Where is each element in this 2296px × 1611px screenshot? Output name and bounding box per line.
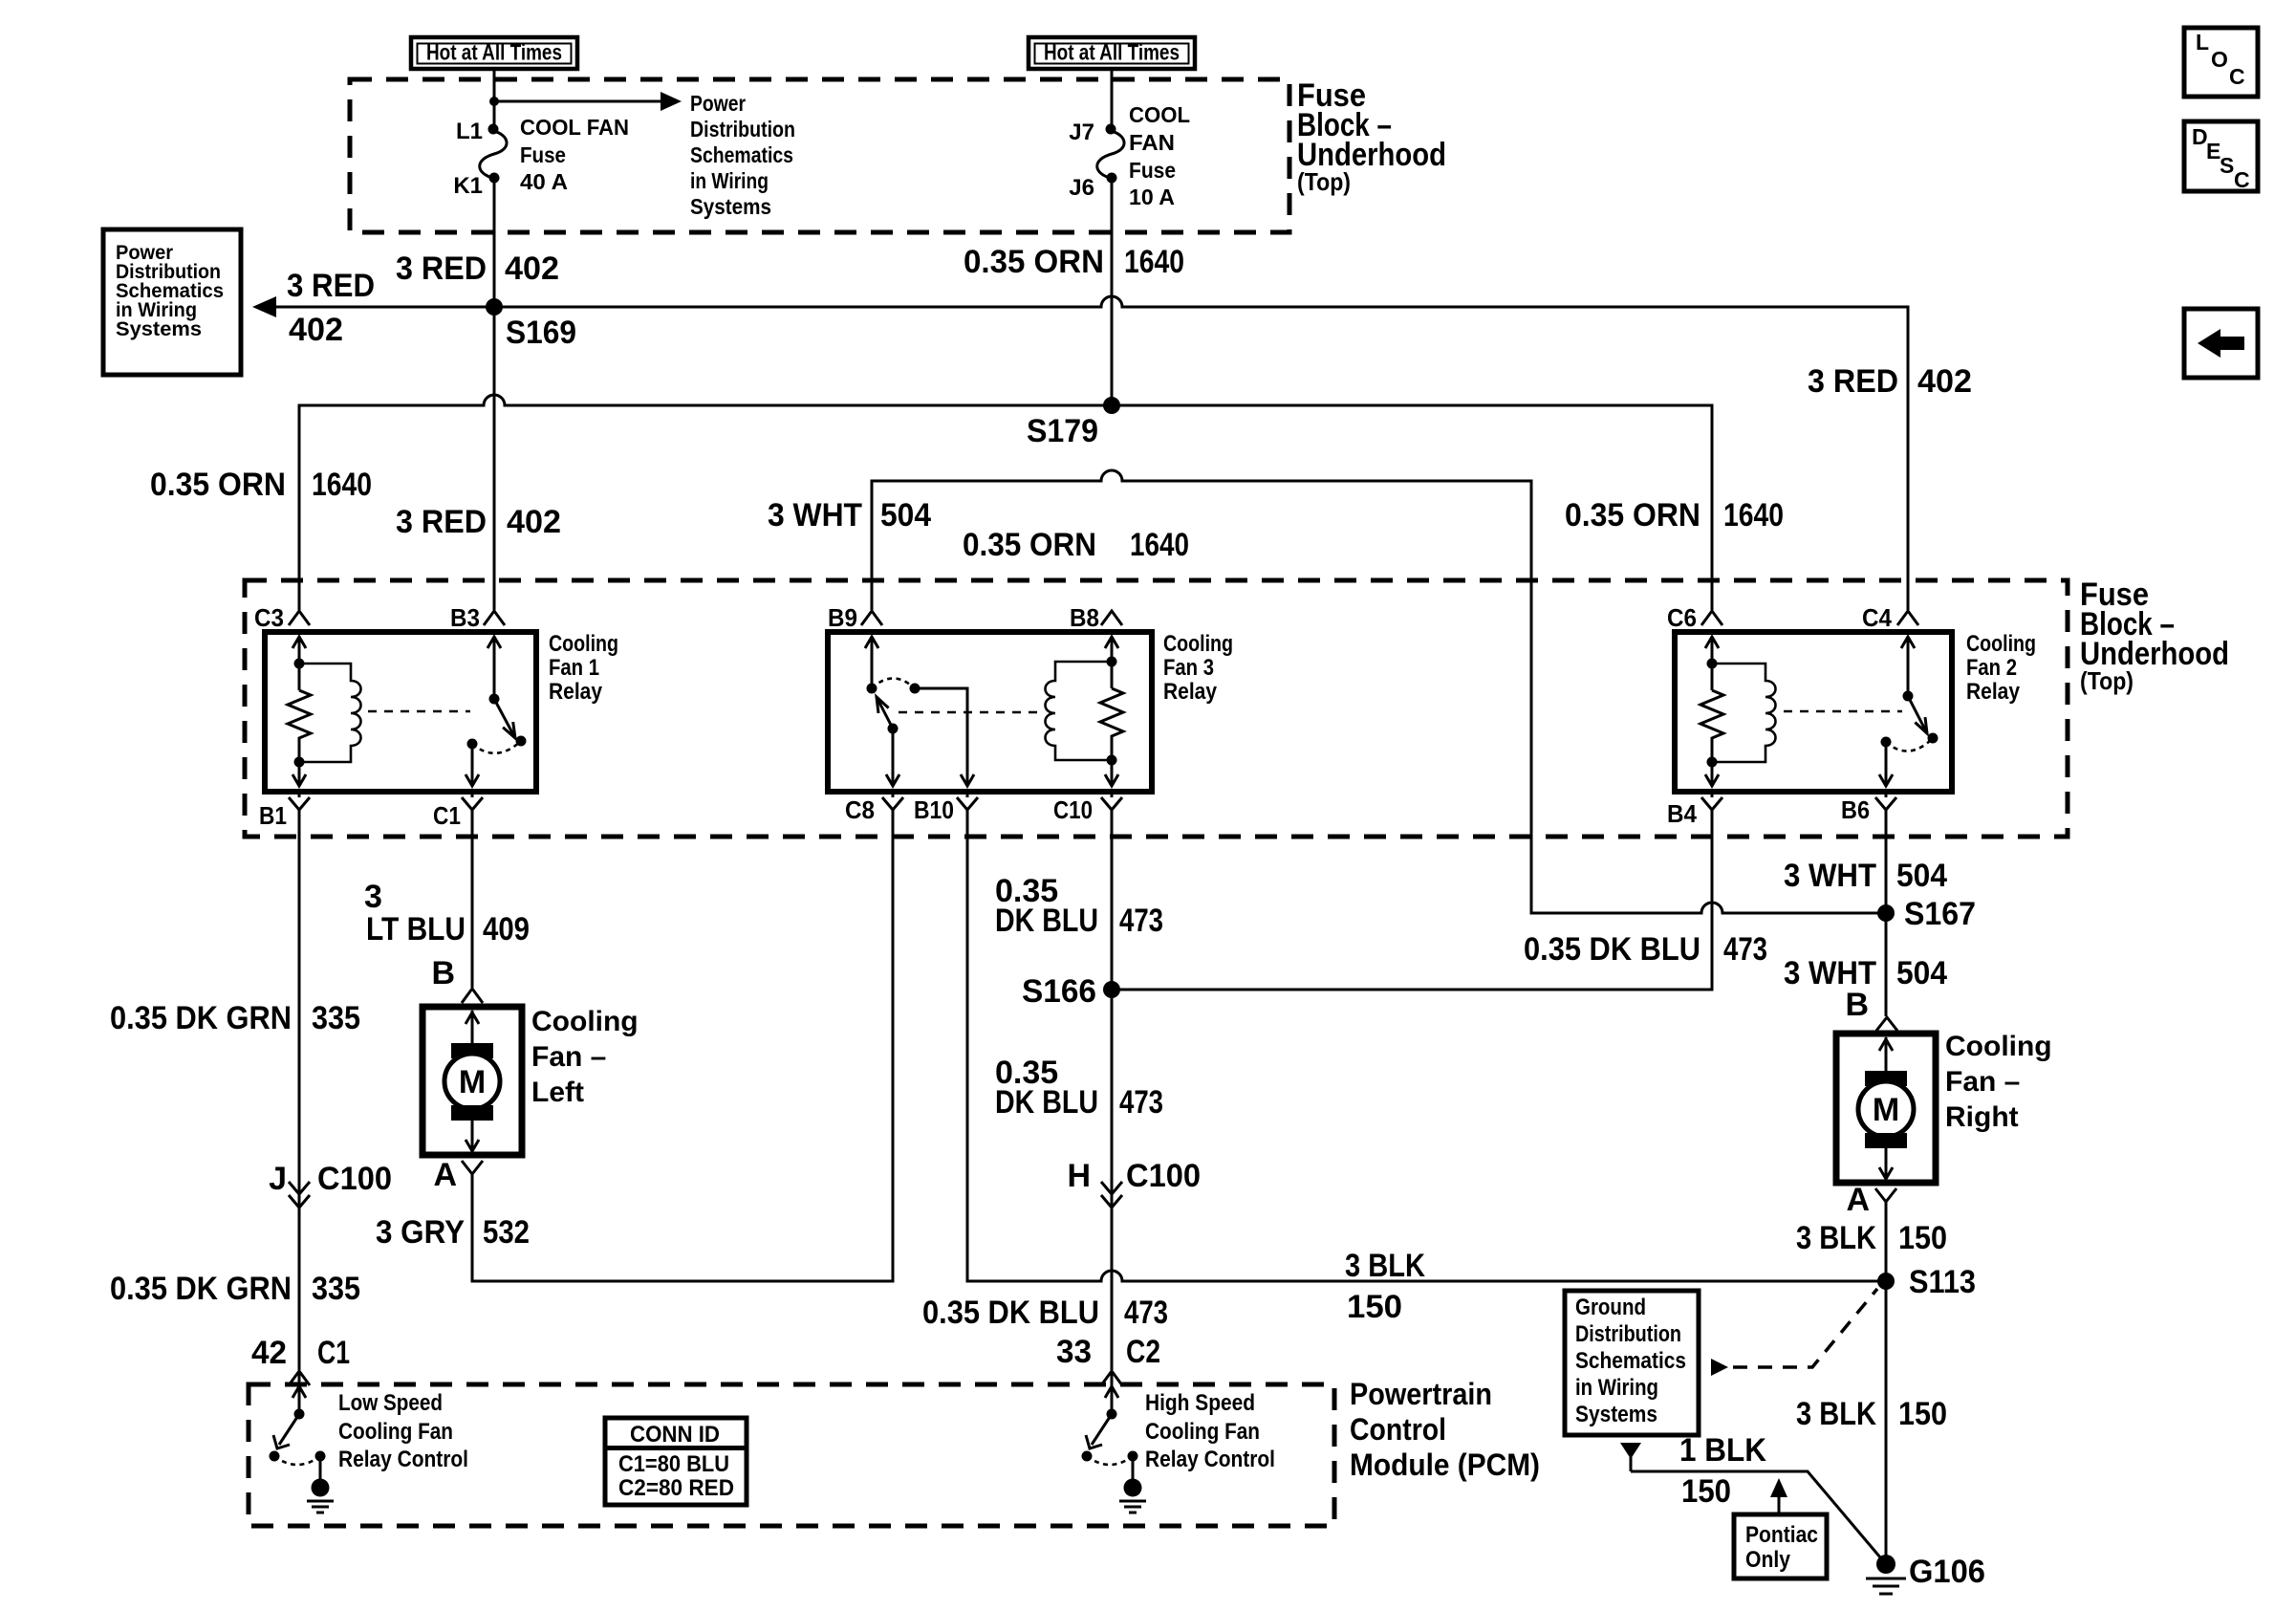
svg-text:Systems: Systems bbox=[116, 318, 202, 340]
svg-text:A: A bbox=[1846, 1182, 1870, 1218]
Hot at All Times box (right) bbox=[1029, 37, 1195, 69]
terminal B10 bbox=[914, 792, 978, 824]
svg-text:C: C bbox=[2229, 64, 2245, 89]
wire C1 to Cooling Fan Left B (3 LT BLU 409) bbox=[471, 822, 474, 988]
Low Speed Cooling Fan Relay Control label bbox=[338, 1390, 468, 1472]
Cooling Fan Right terminal B bbox=[1845, 987, 1897, 1031]
svg-text:33: 33 bbox=[1056, 1334, 1092, 1370]
svg-text:A: A bbox=[433, 1157, 457, 1193]
svg-text:3 BLK: 3 BLK bbox=[1796, 1396, 1876, 1432]
svg-text:150: 150 bbox=[1898, 1220, 1947, 1256]
svg-text:3: 3 bbox=[364, 879, 382, 915]
svg-text:3 RED: 3 RED bbox=[1808, 363, 1898, 400]
svg-text:FAN: FAN bbox=[1129, 130, 1175, 155]
splice S113 bbox=[1877, 1264, 1976, 1300]
DESC box bbox=[2184, 121, 2258, 192]
terminal C6 bbox=[1667, 603, 1722, 632]
label 0.35 ORN 1640 on C6 feed bbox=[1565, 497, 1784, 533]
PCM pin 33 C2 bbox=[1056, 1334, 1160, 1385]
svg-text:in Wiring: in Wiring bbox=[690, 168, 769, 193]
svg-text:Fuse: Fuse bbox=[520, 142, 566, 167]
svg-text:O: O bbox=[2211, 47, 2228, 72]
svg-text:Systems: Systems bbox=[690, 194, 771, 219]
svg-text:150: 150 bbox=[1347, 1289, 1402, 1325]
svg-text:0.35 DK BLU: 0.35 DK BLU bbox=[922, 1295, 1099, 1331]
terminal C4 bbox=[1862, 603, 1918, 632]
label 3 GRY 532 bbox=[376, 1214, 530, 1251]
svg-text:3 BLK: 3 BLK bbox=[1345, 1248, 1425, 1284]
svg-text:3 WHT: 3 WHT bbox=[1784, 858, 1876, 894]
svg-text:B6: B6 bbox=[1841, 795, 1870, 824]
svg-text:Hot at All Times: Hot at All Times bbox=[1044, 40, 1180, 65]
terminal C8 bbox=[845, 792, 903, 824]
svg-text:3 WHT: 3 WHT bbox=[768, 497, 862, 533]
svg-text:C2: C2 bbox=[1126, 1334, 1160, 1370]
terminal B1 bbox=[259, 792, 310, 830]
ground (high speed relay control) bbox=[1119, 1479, 1146, 1513]
svg-text:COOL: COOL bbox=[1129, 102, 1190, 127]
Power Distribution Schematics box (left) bbox=[103, 229, 241, 375]
svg-text:B4: B4 bbox=[1667, 799, 1697, 828]
wire B9 white feed: up from B9, right (hop over ORN), down, right (hop over B4) to S167 bbox=[872, 470, 1886, 913]
Cooling Fan Left label bbox=[531, 1006, 639, 1108]
svg-text:402: 402 bbox=[505, 250, 559, 287]
svg-text:402: 402 bbox=[1917, 363, 1972, 400]
LOC box bbox=[2184, 28, 2258, 97]
wire B3 feed from S169 down bbox=[493, 307, 496, 610]
wire from Hot box 2 down bbox=[1111, 68, 1114, 125]
svg-text:1640: 1640 bbox=[1130, 527, 1189, 563]
Hot at All Times box (left) bbox=[411, 37, 577, 69]
svg-text:Control: Control bbox=[1350, 1412, 1446, 1447]
relay3 switch (B9/C8/B10) bbox=[865, 637, 974, 786]
svg-text:Schematics: Schematics bbox=[690, 142, 793, 167]
svg-text:Left: Left bbox=[531, 1077, 584, 1108]
wire fuse1 to S169 bbox=[493, 178, 496, 307]
label 0.35 DK BLU 473 (middle, two line) bbox=[995, 1055, 1163, 1121]
label 3 WHT 504 below S167 bbox=[1784, 955, 1947, 991]
Power Distribution Schematics in Wiring Systems text (top) bbox=[690, 91, 795, 219]
label 3 WHT 504 above S167 bbox=[1784, 858, 1947, 894]
relay3 resistor (B8/C10 column) bbox=[1100, 637, 1123, 786]
Cooling Fan Right label bbox=[1945, 1031, 2052, 1133]
svg-text:CONN ID: CONN ID bbox=[630, 1422, 720, 1448]
connector C100 pin J (double chevron) bbox=[269, 1161, 392, 1208]
terminal B4 bbox=[1667, 792, 1722, 828]
svg-text:0.35 ORN: 0.35 ORN bbox=[964, 244, 1104, 280]
svg-text:Fan 3: Fan 3 bbox=[1163, 655, 1214, 681]
svg-text:Cooling: Cooling bbox=[531, 1006, 639, 1037]
svg-text:C100: C100 bbox=[317, 1161, 392, 1197]
dashed pointer from Ground Distribution note to S113 bbox=[1711, 1289, 1877, 1376]
svg-text:Cooling Fan: Cooling Fan bbox=[338, 1419, 453, 1445]
Fuse Block label (top right) bbox=[1297, 77, 1446, 196]
wire from Hot box 1 down bbox=[493, 68, 496, 124]
label 0.35 DK BLU 473 on B4 drop bbox=[1524, 931, 1767, 968]
svg-text:S169: S169 bbox=[506, 315, 576, 351]
ground lead symbol under Ground Distribution box bbox=[1620, 1443, 1641, 1471]
svg-text:Module (PCM): Module (PCM) bbox=[1350, 1448, 1540, 1482]
svg-text:COOL FAN: COOL FAN bbox=[520, 115, 629, 140]
svg-text:532: 532 bbox=[483, 1214, 530, 1251]
relay2 switch (C4/B6) bbox=[1879, 637, 1939, 786]
svg-text:K1: K1 bbox=[453, 173, 483, 199]
svg-text:402: 402 bbox=[289, 312, 343, 348]
svg-text:3 BLK: 3 BLK bbox=[1796, 1220, 1876, 1256]
svg-text:C4: C4 bbox=[1862, 603, 1892, 632]
svg-text:(Top): (Top) bbox=[2080, 666, 2134, 695]
relay: Cooling Fan 1 Relay box bbox=[265, 632, 536, 792]
label 3 RED 402 at C4 feed bbox=[1808, 363, 1972, 400]
wire S169 to C4 (3 RED 402 right feed) with hop over ORN wire bbox=[494, 296, 1908, 610]
svg-text:0.35 ORN: 0.35 ORN bbox=[150, 467, 286, 503]
svg-text:504: 504 bbox=[1896, 955, 1947, 991]
relay2 resistor (C6/B4 column) bbox=[1700, 637, 1723, 786]
svg-text:1 BLK: 1 BLK bbox=[1679, 1432, 1766, 1469]
Cooling Fan 1 Relay label bbox=[549, 631, 618, 705]
svg-text:3 RED: 3 RED bbox=[396, 250, 487, 287]
wire fuse2 to S179 bbox=[1111, 178, 1114, 405]
svg-text:504: 504 bbox=[880, 497, 931, 533]
label 3 WHT 504 on B9 feed bbox=[768, 497, 931, 533]
svg-text:C2=80 RED: C2=80 RED bbox=[618, 1475, 734, 1501]
svg-text:1640: 1640 bbox=[1124, 244, 1184, 280]
arrow from Pontiac Only box to 1 BLK wire bbox=[1770, 1478, 1787, 1514]
svg-text:B10: B10 bbox=[914, 795, 954, 824]
splice S179 bbox=[1027, 397, 1120, 449]
Powertrain Control Module (PCM) label bbox=[1350, 1377, 1540, 1482]
COOL FAN Fuse 10 A label bbox=[1129, 102, 1190, 209]
svg-text:Right: Right bbox=[1945, 1101, 2019, 1133]
svg-text:DK BLU: DK BLU bbox=[995, 1084, 1098, 1121]
svg-text:C10: C10 bbox=[1053, 795, 1093, 824]
relay3 coil bbox=[1046, 662, 1113, 760]
wire S113 to G106 (3 BLK 150) bbox=[1885, 1281, 1888, 1564]
svg-text:Fan –: Fan – bbox=[531, 1041, 606, 1073]
label 0.35 DK GRN 335 (upper) bbox=[110, 1000, 360, 1036]
wire S166 to B4 (0.35 DK BLU 473) bbox=[1112, 822, 1712, 990]
wire S179 distribution line (hop over RED wire) left to C3, right to C6 bbox=[299, 395, 1712, 610]
motor: Cooling Fan Left bbox=[422, 1007, 522, 1155]
svg-text:42: 42 bbox=[251, 1335, 287, 1371]
svg-text:Cooling: Cooling bbox=[1163, 631, 1233, 657]
svg-text:C1=80 BLU: C1=80 BLU bbox=[618, 1451, 729, 1477]
svg-text:G106: G106 bbox=[1909, 1554, 1985, 1590]
label 3 BLK 150 above S113 bbox=[1796, 1220, 1947, 1256]
terminal B3 bbox=[450, 603, 505, 632]
svg-text:1640: 1640 bbox=[1723, 497, 1784, 533]
svg-text:H: H bbox=[1067, 1158, 1091, 1194]
junction dot for arrow branch bbox=[489, 97, 499, 106]
high speed relay control switch bbox=[1082, 1371, 1138, 1481]
Cooling Fan Left terminal A bbox=[433, 1157, 483, 1193]
svg-text:150: 150 bbox=[1898, 1396, 1947, 1432]
Cooling Fan Right terminal A bbox=[1846, 1182, 1896, 1218]
svg-text:Relay: Relay bbox=[549, 679, 603, 705]
Pontiac Only box bbox=[1734, 1514, 1827, 1578]
svg-text:C1: C1 bbox=[433, 801, 461, 830]
svg-text:J6: J6 bbox=[1069, 175, 1094, 201]
svg-text:S167: S167 bbox=[1904, 896, 1976, 932]
back arrow box bbox=[2184, 309, 2258, 378]
svg-text:0.35 ORN: 0.35 ORN bbox=[963, 527, 1096, 563]
svg-text:Fan 2: Fan 2 bbox=[1966, 655, 2017, 681]
svg-text:473: 473 bbox=[1119, 903, 1163, 939]
svg-text:C: C bbox=[2234, 167, 2250, 192]
relay1 resistor (C3/B1 column) bbox=[288, 637, 311, 786]
svg-text:Cooling Fan: Cooling Fan bbox=[1145, 1419, 1260, 1445]
svg-text:Relay: Relay bbox=[1966, 679, 2021, 705]
svg-text:B9: B9 bbox=[828, 603, 857, 632]
fuse COOL FAN 40A element bbox=[480, 124, 507, 184]
svg-text:409: 409 bbox=[483, 911, 530, 947]
terminal B8 bbox=[1070, 603, 1122, 632]
svg-text:Power: Power bbox=[690, 91, 746, 116]
terminal B9 bbox=[828, 603, 882, 632]
svg-text:Fan –: Fan – bbox=[1945, 1066, 2020, 1098]
terminal B6 bbox=[1841, 792, 1896, 824]
relay1 switch (B3/C1) bbox=[466, 637, 527, 786]
svg-text:Distribution: Distribution bbox=[690, 117, 795, 142]
svg-text:C100: C100 bbox=[1126, 1158, 1201, 1194]
svg-text:B3: B3 bbox=[450, 603, 480, 632]
wire C10 down to PCM pin 33 (0.35 DK BLU 473) bbox=[1111, 822, 1114, 1370]
label 3 LT BLU 409 bbox=[364, 879, 530, 947]
wire B6 down through S167 to fan right B (3 WHT 504) bbox=[1885, 822, 1888, 1016]
ground (low speed relay control) bbox=[307, 1479, 334, 1513]
label 0.35 ORN 1640 on C3 feed bbox=[150, 467, 372, 503]
svg-text:Cooling: Cooling bbox=[1945, 1031, 2052, 1062]
connector C100 pin H (double chevron) bbox=[1067, 1158, 1201, 1208]
Fuse Block Underhood (top) dashed box bbox=[350, 79, 1289, 232]
wire 1 BLK 150 to G106 bbox=[1631, 1471, 1886, 1564]
svg-text:402: 402 bbox=[507, 504, 561, 540]
terminal C10 bbox=[1053, 792, 1122, 824]
wire S169 left arrow to Power Distribution box bbox=[252, 296, 494, 317]
svg-text:150: 150 bbox=[1681, 1473, 1731, 1510]
svg-text:40 A: 40 A bbox=[520, 169, 568, 194]
svg-text:C1: C1 bbox=[317, 1335, 350, 1371]
arrow to Power Distribution Schematics text bbox=[494, 92, 682, 111]
svg-text:M: M bbox=[459, 1064, 486, 1100]
svg-text:Hot at All Times: Hot at All Times bbox=[426, 40, 562, 65]
label 0.35 DK BLU 473 (lower single line) bbox=[922, 1295, 1168, 1331]
relay2 actuator dashed link bbox=[1784, 710, 1902, 713]
label 3 BLK 150 above G106 bbox=[1796, 1396, 1947, 1432]
splice S166 bbox=[1022, 973, 1120, 1010]
svg-text:Relay Control: Relay Control bbox=[338, 1447, 468, 1472]
svg-text:Distribution: Distribution bbox=[1575, 1321, 1681, 1347]
label 0.35 ORN 1640 above S179 bbox=[964, 244, 1184, 280]
svg-text:3 RED: 3 RED bbox=[287, 268, 375, 304]
label 3 RED 402 on B3 feed bbox=[396, 504, 561, 540]
svg-text:B8: B8 bbox=[1070, 603, 1099, 632]
Fuse Block label (right) bbox=[2080, 577, 2229, 695]
low speed relay control switch bbox=[270, 1371, 326, 1481]
svg-text:C6: C6 bbox=[1667, 603, 1697, 632]
svg-text:0.35 DK BLU: 0.35 DK BLU bbox=[1524, 931, 1700, 968]
svg-text:S179: S179 bbox=[1027, 413, 1098, 449]
svg-text:B1: B1 bbox=[259, 801, 287, 830]
splice S167 bbox=[1877, 896, 1976, 932]
svg-text:0.35 DK GRN: 0.35 DK GRN bbox=[110, 1271, 292, 1307]
svg-text:504: 504 bbox=[1896, 858, 1947, 894]
terminal C1 bbox=[433, 792, 483, 830]
svg-text:C8: C8 bbox=[845, 795, 875, 824]
svg-text:Cooling: Cooling bbox=[549, 631, 618, 657]
svg-text:473: 473 bbox=[1723, 931, 1767, 968]
svg-text:Powertrain: Powertrain bbox=[1350, 1377, 1492, 1411]
label 0.35 ORN 1640 on B8 feed bbox=[963, 527, 1189, 563]
svg-text:473: 473 bbox=[1124, 1295, 1168, 1331]
svg-text:B: B bbox=[431, 955, 455, 991]
terminal C3 bbox=[254, 603, 310, 632]
relay: Cooling Fan 3 Relay box bbox=[828, 632, 1152, 792]
svg-text:Relay: Relay bbox=[1163, 679, 1218, 705]
svg-text:Relay Control: Relay Control bbox=[1145, 1447, 1275, 1472]
svg-text:B: B bbox=[1845, 987, 1869, 1023]
High Speed Cooling Fan Relay Control label bbox=[1145, 1390, 1275, 1472]
svg-text:S166: S166 bbox=[1022, 973, 1096, 1010]
svg-text:0.35 ORN: 0.35 ORN bbox=[1565, 497, 1700, 533]
svg-text:3 GRY: 3 GRY bbox=[376, 1214, 465, 1251]
motor: Cooling Fan Right bbox=[1836, 1034, 1936, 1183]
wire fan left A to C8 (3 GRY 532) bbox=[472, 822, 893, 1281]
wire B1 to PCM pin 42 (0.35 DK GRN 335) bbox=[298, 822, 301, 1370]
svg-text:LT BLU: LT BLU bbox=[366, 911, 466, 947]
CONN ID table bbox=[605, 1418, 747, 1505]
svg-text:J: J bbox=[269, 1161, 287, 1197]
svg-text:S113: S113 bbox=[1909, 1264, 1976, 1300]
label 0.35 DK BLU 473 (upper, two line) bbox=[995, 873, 1163, 939]
svg-text:L: L bbox=[2196, 30, 2209, 54]
svg-text:Low Speed: Low Speed bbox=[338, 1390, 443, 1416]
relay1 actuator dashed link bbox=[368, 710, 470, 713]
relay2 coil bbox=[1712, 664, 1776, 762]
relay: Cooling Fan 2 Relay box bbox=[1675, 632, 1952, 792]
svg-text:335: 335 bbox=[312, 1000, 360, 1036]
PCM pin 42 C1 bbox=[251, 1335, 350, 1385]
Ground Distribution Schematics box bbox=[1565, 1291, 1699, 1435]
svg-text:473: 473 bbox=[1119, 1084, 1163, 1121]
ground G106 bbox=[1866, 1554, 1985, 1594]
svg-text:Cooling: Cooling bbox=[1966, 631, 2036, 657]
label 0.35 DK GRN 335 (lower) bbox=[110, 1271, 360, 1307]
wire fan right A to S113 (3 BLK 150) bbox=[1885, 1213, 1888, 1281]
svg-text:3 RED: 3 RED bbox=[396, 504, 487, 540]
Fuse Block Underhood (bottom) dashed box bbox=[245, 580, 2068, 837]
svg-text:Only: Only bbox=[1745, 1547, 1791, 1573]
svg-text:Systems: Systems bbox=[1575, 1402, 1657, 1427]
svg-text:DK BLU: DK BLU bbox=[995, 903, 1098, 939]
svg-text:10 A: 10 A bbox=[1129, 185, 1175, 209]
svg-text:C3: C3 bbox=[254, 603, 284, 632]
svg-text:1640: 1640 bbox=[312, 467, 372, 503]
svg-text:High Speed: High Speed bbox=[1145, 1390, 1255, 1416]
Cooling Fan 3 Relay label bbox=[1163, 631, 1233, 705]
svg-text:M: M bbox=[1873, 1092, 1899, 1128]
splice S169 bbox=[486, 298, 576, 351]
label 3 RED 402 above S169 bbox=[396, 250, 559, 287]
svg-text:Fan 1: Fan 1 bbox=[549, 655, 599, 681]
PCM dashed box bbox=[249, 1384, 1334, 1526]
svg-text:L1: L1 bbox=[456, 119, 483, 144]
svg-text:in Wiring: in Wiring bbox=[1575, 1375, 1658, 1401]
Cooling Fan Left terminal B bbox=[431, 955, 483, 1003]
svg-text:Pontiac: Pontiac bbox=[1745, 1522, 1818, 1548]
fuse COOL FAN 10A element bbox=[1097, 124, 1124, 184]
relay3 actuator dashed link bbox=[899, 711, 1038, 714]
svg-text:Ground: Ground bbox=[1575, 1295, 1646, 1320]
svg-text:S: S bbox=[2220, 153, 2234, 178]
svg-text:Schematics: Schematics bbox=[1575, 1348, 1686, 1374]
Cooling Fan 2 Relay label bbox=[1966, 631, 2036, 705]
COOL FAN Fuse 40 A label bbox=[520, 115, 629, 194]
wire B10 to S113 (3 BLK 150 long run, hop over DK BLU) bbox=[967, 822, 1886, 1281]
relay1 coil bbox=[299, 664, 361, 762]
svg-text:Fuse: Fuse bbox=[1129, 158, 1176, 183]
svg-text:(Top): (Top) bbox=[1297, 167, 1351, 196]
svg-text:335: 335 bbox=[312, 1271, 360, 1307]
svg-text:J7: J7 bbox=[1069, 120, 1094, 145]
svg-text:0.35 DK GRN: 0.35 DK GRN bbox=[110, 1000, 292, 1036]
